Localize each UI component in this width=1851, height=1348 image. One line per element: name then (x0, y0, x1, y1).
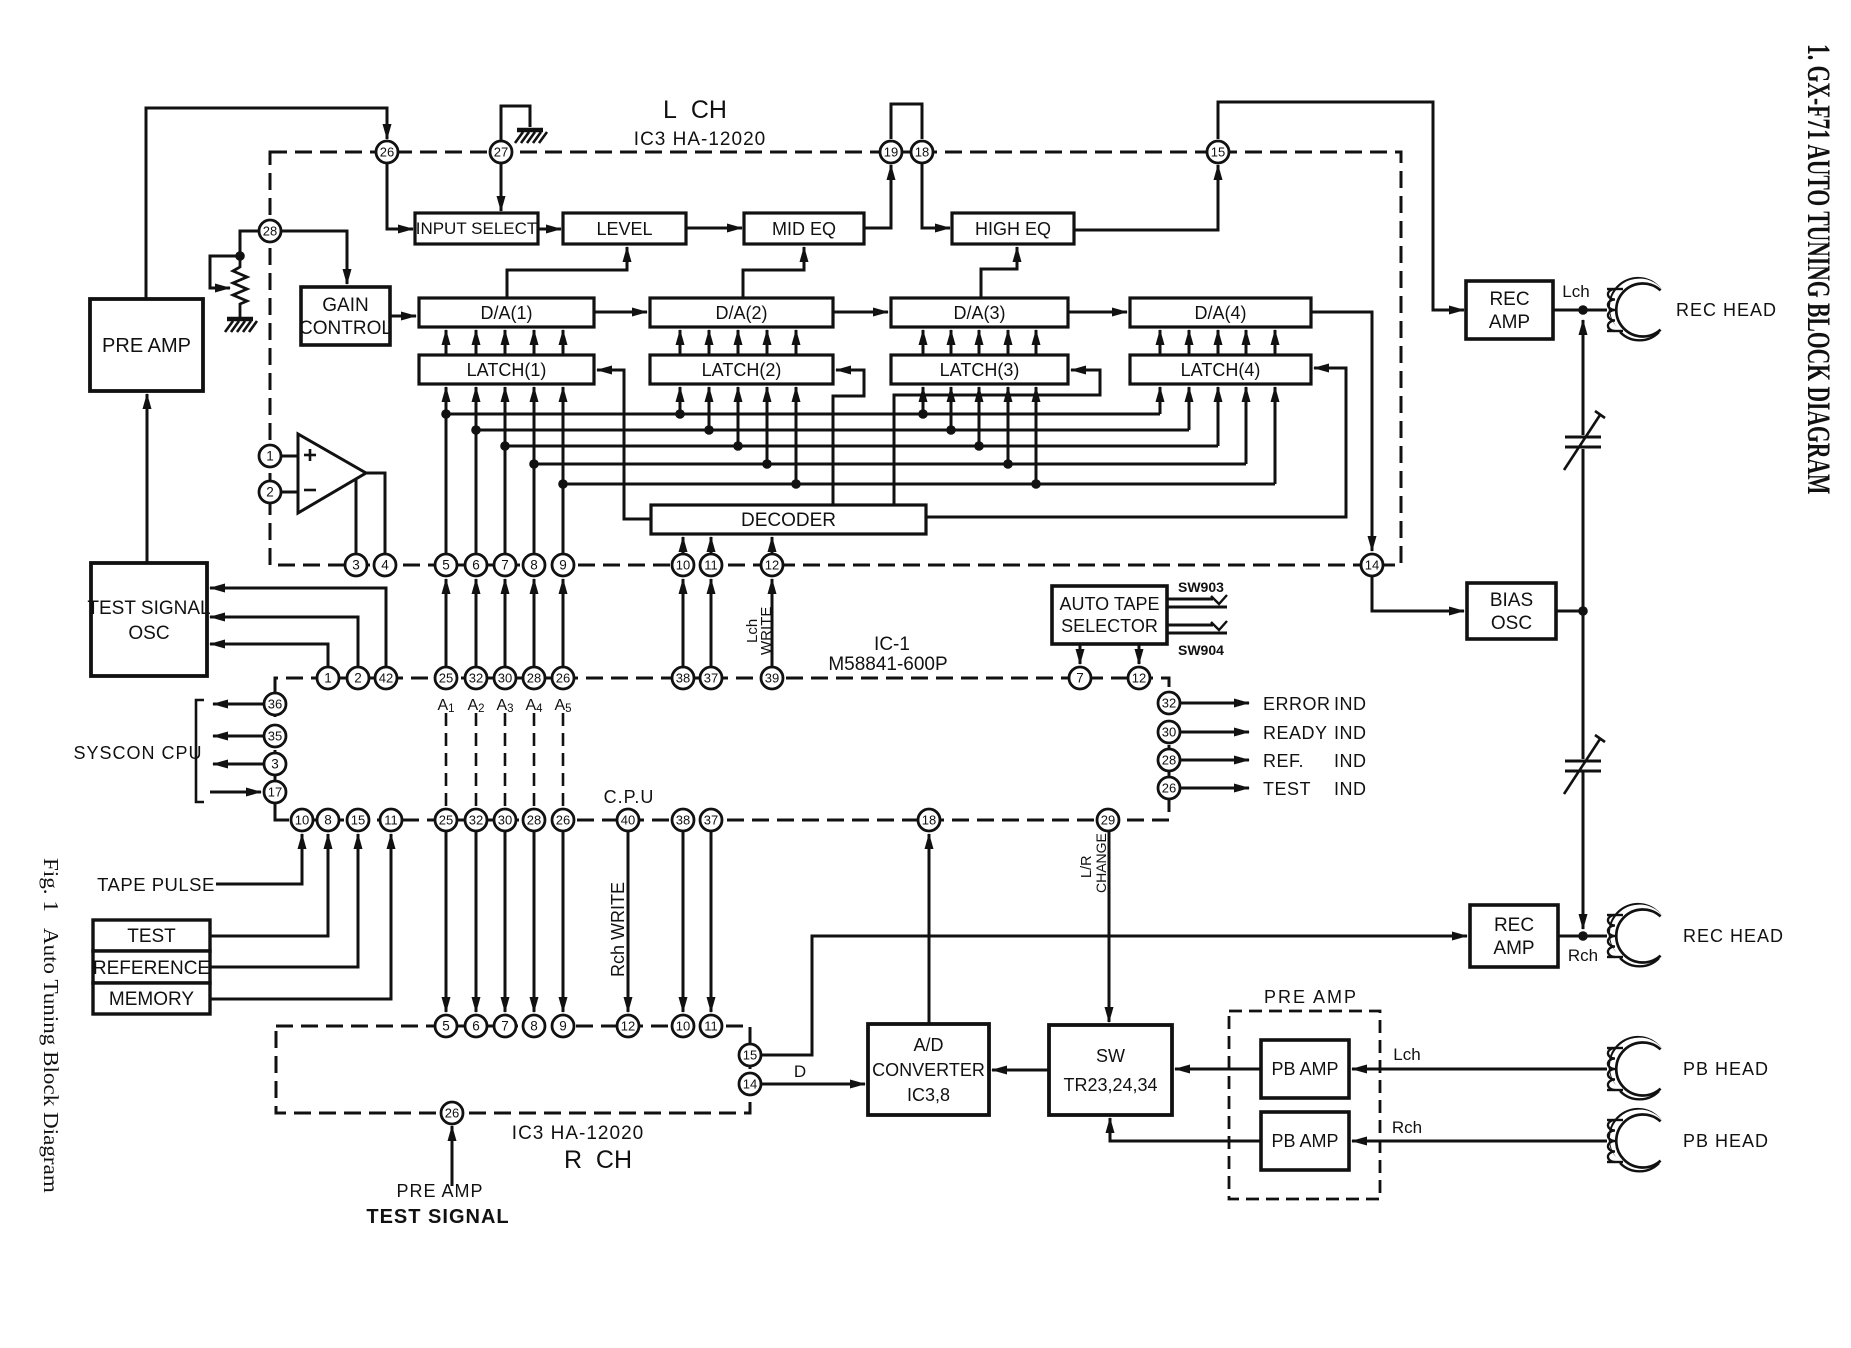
svg-text:8: 8 (324, 813, 332, 828)
wire CPU pin 29 to SW (L/R CHANGE) (1108, 831, 1111, 1022)
svg-text:R CH: R CH (564, 1146, 632, 1174)
pin 28 (CPU right) (1158, 749, 1180, 771)
pin 28 (CPU bottom) (523, 809, 545, 831)
svg-text:CONTROL: CONTROL (299, 318, 392, 339)
pin 3 (IC3 L bottom) (345, 554, 367, 576)
wire CPU pin 40 down to R CH pin 12 (Rch WRITE) (627, 831, 630, 1012)
pin 9 (IC3 R top) (552, 1015, 574, 1037)
svg-text:PB HEAD: PB HEAD (1683, 1059, 1769, 1079)
wire pin 28 to REF. IND (1180, 759, 1249, 762)
svg-text:28: 28 (263, 224, 277, 239)
wire LATCH(2) bit 5 to D/A(2) (795, 330, 798, 355)
pin 32 (CPU top) (465, 667, 487, 689)
wire CPU to IC3-L pin 5 riser (445, 579, 448, 667)
pin 18 (IC3 L top) (911, 141, 933, 163)
svg-text:TAPE PULSE: TAPE PULSE (97, 874, 215, 895)
PB HEAD Lch symbol (1607, 1036, 1662, 1099)
bus wire bit 5 horizontal (563, 483, 1275, 486)
svg-text:38: 38 (676, 813, 690, 828)
block INPUT SELECT (415, 213, 538, 244)
wire LEVEL to MID EQ (686, 227, 742, 230)
svg-text:2: 2 (266, 485, 274, 500)
svg-text:CHANGE: CHANGE (1093, 833, 1109, 893)
block DECODER (651, 505, 926, 534)
pin 40 (CPU bottom) (617, 809, 639, 831)
wire INPUT SELECT to LEVEL (538, 228, 561, 231)
chassis ground at pin 27 (515, 130, 547, 143)
wire pin 35 to SYSCON CPU (213, 735, 264, 738)
svg-text:TR23,24,34: TR23,24,34 (1063, 1075, 1157, 1095)
svg-text:29: 29 (1101, 813, 1115, 828)
svg-text:7: 7 (501, 1019, 509, 1034)
wire pin 28 to potentiometer node (240, 231, 259, 253)
pin 2 (IC3 L left) (259, 481, 281, 503)
junction dot bit 4 on column 4 (529, 459, 539, 469)
variable capacitor C-Lch (1564, 411, 1605, 470)
pin 4 (IC3 L bottom) (374, 554, 396, 576)
svg-text:30: 30 (498, 671, 512, 686)
wire LATCH(3) bit 3 to D/A(3) (978, 330, 981, 355)
wire MEMORY to pin 11 (210, 834, 391, 999)
wire bit 4 up to LATCH(3) (1007, 387, 1010, 464)
wire data bit 4 from pin 8 up to LATCH(1) (533, 387, 536, 554)
pin 32 (CPU bottom) (465, 809, 487, 831)
svg-text:MEMORY: MEMORY (109, 989, 194, 1010)
block TEST (93, 920, 210, 951)
wire pin 36 to SYSCON CPU (213, 703, 264, 706)
svg-text:26: 26 (1162, 781, 1176, 796)
REC HEAD Lch symbol (1607, 277, 1662, 340)
wire D/A(1) top to LEVEL (507, 247, 627, 298)
wire MID EQ to pin 19 (864, 165, 891, 228)
svg-text:3: 3 (271, 757, 279, 772)
pin 19 (IC3 L top) (880, 141, 902, 163)
svg-text:DECODER: DECODER (741, 510, 836, 531)
wire potentiometer wiper loop (210, 256, 240, 288)
pin 30 (CPU top) (494, 667, 516, 689)
svg-text:SW: SW (1096, 1046, 1125, 1066)
wire LATCH(4) bit 5 to D/A(4) (1274, 330, 1277, 355)
svg-text:6: 6 (472, 1019, 480, 1034)
wire CPU pin 25 down to R CH (445, 831, 448, 1012)
block HIGH EQ (952, 213, 1074, 244)
wire bit 3 up to LATCH(3) (978, 387, 981, 446)
pin 15 (IC3 L top) (1207, 141, 1229, 163)
block D/A(3) (891, 298, 1068, 327)
svg-text:35: 35 (268, 729, 282, 744)
svg-text:REF.: REF. (1263, 751, 1304, 771)
pin 25 (CPU bottom) (435, 809, 457, 831)
svg-text:38: 38 (676, 671, 690, 686)
pin 10 (IC3 L bottom) (672, 554, 694, 576)
svg-text:26: 26 (380, 145, 394, 160)
wire DECODER to LATCH(3) enable (894, 370, 1100, 505)
junction dot bias on Rch rec line (1578, 931, 1588, 941)
wire LATCH(4) bit 4 to D/A(4) (1245, 330, 1248, 355)
svg-text:14: 14 (1365, 558, 1379, 573)
pin 8 (IC3 L bottom) (523, 554, 545, 576)
svg-text:LATCH(1): LATCH(1) (467, 360, 547, 380)
svg-text:39: 39 (765, 671, 779, 686)
pin 26 (CPU top) (552, 667, 574, 689)
wire GAIN CONTROL to D/A(1) (390, 315, 416, 318)
svg-text:Rch WRITE: Rch WRITE (608, 882, 628, 977)
junction dot bit 5 at LATCH(2) column (791, 479, 801, 489)
svg-text:3: 3 (352, 558, 360, 573)
wire CPU to IC3-L pin 8 riser (533, 579, 536, 667)
svg-text:25: 25 (439, 813, 453, 828)
wire pin 12 to DECODER (771, 537, 774, 554)
svg-text:8: 8 (530, 1019, 538, 1034)
IC-1 CPU dashed boundary (275, 678, 1169, 820)
svg-text:Lch: Lch (1393, 1045, 1420, 1064)
wire CPU pin 30 down to R CH (504, 831, 507, 1012)
SW904 switch chevron (1211, 621, 1227, 630)
dashed address line A3 (504, 713, 507, 806)
svg-text:PB AMP: PB AMP (1271, 1059, 1338, 1079)
svg-text:AMP: AMP (1489, 312, 1530, 333)
svg-text:CONVERTER: CONVERTER (872, 1060, 985, 1080)
block A/D CONVERTER (868, 1024, 989, 1115)
junction dot bit 1 at LATCH(2) column (675, 409, 685, 419)
wire bit 2 up to LATCH(4) (1188, 387, 1191, 430)
wire D/A(2) top to MID EQ (743, 247, 804, 298)
svg-text:TEST: TEST (127, 926, 176, 947)
wire LATCH(4) bit 2 to D/A(4) (1188, 330, 1191, 355)
pin 39 (CPU top) (761, 667, 783, 689)
svg-text:19: 19 (884, 145, 898, 160)
svg-text:11: 11 (384, 813, 398, 828)
wire PRE AMP TEST SIGNAL to pin 26 (451, 1126, 454, 1186)
svg-text:10: 10 (676, 1019, 690, 1034)
pin 29 (CPU bottom) (1097, 809, 1119, 831)
pin 8 (CPU bottom) (317, 809, 339, 831)
block LATCH(2) (650, 355, 833, 384)
svg-text:1. GX-F71 AUTO TUNING BLOCK DI: 1. GX-F71 AUTO TUNING BLOCK DIAGRAM (1800, 44, 1837, 494)
wire pin 27 down to INPUT SELECT top (500, 163, 503, 211)
junction dot bit 3 on column 3 (500, 441, 510, 451)
wire D/A(1) to D/A(2) (594, 311, 647, 314)
wire data bit 3 from pin 7 up to LATCH(1) (504, 387, 507, 554)
svg-text:Fig. 1 Auto Tuning Block Dia: Fig. 1 Auto Tuning Block Diagram (39, 858, 63, 1193)
svg-text:D/A(2): D/A(2) (715, 303, 767, 323)
svg-text:32: 32 (1162, 696, 1176, 711)
pin 30 (CPU bottom) (494, 809, 516, 831)
wire CPU to IC3-L pin 10 riser (682, 579, 685, 667)
wire LATCH(2) bit 2 to D/A(2) (708, 330, 711, 355)
wire CPU to IC3-L pin 7 riser (504, 579, 507, 667)
svg-text:PRE AMP: PRE AMP (1264, 987, 1358, 1007)
svg-text:42: 42 (379, 671, 393, 686)
svg-text:IC3 HA-12020: IC3 HA-12020 (512, 1123, 644, 1144)
block AUTO TAPE SELECTOR (1052, 586, 1167, 644)
block BIAS OSC (1467, 583, 1556, 639)
junction dot bit 2 at LATCH(2) column (704, 425, 714, 435)
wire REC AMP Rch to REC HEAD (1558, 935, 1607, 938)
wire pin 11 to DECODER (710, 537, 713, 554)
junction dot bit 2 on column 2 (471, 425, 481, 435)
wire pin 10 to DECODER (682, 537, 685, 554)
bus wire bit 4 horizontal (534, 463, 1246, 466)
wire LATCH(1) bit 2 to D/A(1) (475, 330, 478, 355)
svg-text:LATCH(4): LATCH(4) (1181, 360, 1261, 380)
wire pin 26 to TEST IND (1180, 787, 1249, 790)
pin 26 (IC3 L top) (376, 141, 398, 163)
svg-text:32: 32 (469, 813, 483, 828)
pin 37 (CPU bottom) (700, 809, 722, 831)
svg-text:REC HEAD: REC HEAD (1683, 926, 1784, 946)
svg-text:A/D: A/D (913, 1035, 943, 1055)
junction dot bit 4 at LATCH(2) column (762, 459, 772, 469)
wire pin 15 to REC AMP Lch (1218, 102, 1464, 310)
block LEVEL (563, 213, 686, 244)
wire LATCH(1) bit 5 to D/A(1) (562, 330, 565, 355)
wire pin 17 to pin 10 (275, 803, 289, 820)
wire A/D CONVERTER to CPU pin 18 (928, 834, 931, 1024)
wire pin 1 to TEST SIGNAL OSC (210, 644, 328, 667)
wire PB AMP Lch to SW (1175, 1068, 1261, 1071)
pin 26 (CPU right) (1158, 777, 1180, 799)
pin 30 (CPU right) (1158, 721, 1180, 743)
svg-text:26: 26 (445, 1106, 459, 1121)
svg-text:TEST: TEST (1263, 779, 1311, 799)
svg-text:26: 26 (556, 813, 570, 828)
svg-text:WRITE: WRITE (758, 607, 775, 655)
bus wire bit 3 horizontal (505, 445, 1218, 448)
svg-text:9: 9 (559, 558, 567, 573)
svg-text:IC-1: IC-1 (874, 634, 910, 655)
wire bit 2 up to LATCH(3) (950, 387, 953, 430)
wire D/A(3) to D/A(4) (1068, 311, 1127, 314)
pin 7 (CPU top) (1069, 667, 1091, 689)
svg-text:TEST SIGNAL: TEST SIGNAL (366, 1206, 509, 1228)
pin 25 (CPU top) (435, 667, 457, 689)
block TEST SIGNAL OSC (87, 563, 210, 676)
block MEMORY (93, 983, 210, 1014)
svg-text:15: 15 (351, 813, 365, 828)
pin 11 (IC3 R top) (700, 1015, 722, 1037)
svg-text:REC: REC (1494, 915, 1534, 936)
wire CPU to IC3-L pin 12 riser (771, 579, 774, 667)
wire LATCH(3) bit 5 to D/A(3) (1035, 330, 1038, 355)
svg-text:REC HEAD: REC HEAD (1676, 300, 1777, 320)
wire CPU to IC3-L pin 9 riser (562, 579, 565, 667)
wire LATCH(3) bit 1 to D/A(3) (922, 330, 925, 355)
wire bit 2 up to LATCH(2) (708, 387, 711, 430)
block LATCH(3) (891, 355, 1068, 384)
svg-text:IND: IND (1334, 779, 1367, 799)
wire LATCH(2) bit 4 to D/A(2) (766, 330, 769, 355)
svg-text:2: 2 (354, 671, 362, 686)
svg-text:PB AMP: PB AMP (1271, 1131, 1338, 1151)
wire DECODER to LATCH(2) enable (833, 370, 864, 505)
wire data bit 5 from pin 9 up to LATCH(1) (562, 387, 565, 554)
block PB AMP Lch (1261, 1040, 1349, 1098)
wire SW903 switch upper (1167, 598, 1213, 601)
block PB AMP Rch (1261, 1112, 1349, 1170)
junction dot bit 3 at LATCH(2) column (733, 441, 743, 451)
block MID EQ (744, 213, 864, 244)
svg-text:OSC: OSC (128, 623, 169, 644)
junction dot bit 3 at LATCH(3) column (974, 441, 984, 451)
IC3 L-channel dashed boundary box (270, 152, 1401, 565)
pin 1 (CPU top) (317, 667, 339, 689)
pin 3 (CPU left) (264, 753, 286, 775)
pin 37 (CPU top) (700, 667, 722, 689)
wire data bit 2 from pin 6 up to LATCH(1) (475, 387, 478, 554)
wire CPU pin 38 down to R CH pin 10 (682, 831, 685, 1012)
block D/A(2) (650, 298, 833, 327)
pin 5 (IC3 R top) (435, 1015, 457, 1037)
dashed address line A2 (475, 713, 478, 806)
pin 14 (IC3 L bottom) (1361, 554, 1383, 576)
wire R CH pin 15 to REC AMP Rch (761, 936, 1467, 1055)
bias feed wire up to Lch rec line (1582, 449, 1585, 611)
svg-text:AMP: AMP (1493, 938, 1534, 959)
svg-text:7: 7 (501, 558, 509, 573)
wire CPU pin 28 down to R CH (533, 831, 536, 1012)
wire pin 14 to BIAS OSC (1372, 576, 1464, 611)
wire bit 4 up to LATCH(4) (1245, 387, 1248, 464)
wire CPU to IC3-L pin 11 riser (710, 579, 713, 667)
wire bridge pin 19 to pin 18 (891, 104, 922, 139)
svg-text:25: 25 (439, 671, 453, 686)
svg-text:18: 18 (915, 145, 929, 160)
potentiometer resistor element (233, 256, 247, 318)
svg-text:4: 4 (381, 558, 389, 573)
junction dot bit 1 at LATCH(3) column (918, 409, 928, 419)
REC HEAD Rch symbol (1607, 903, 1662, 966)
pin 26 (IC3 R bottom) (441, 1102, 463, 1124)
svg-text:IND: IND (1334, 723, 1367, 743)
wire CPU pin 37 down to R CH pin 11 (710, 831, 713, 1012)
dashed address line A5 (562, 713, 565, 806)
svg-text:1: 1 (324, 671, 332, 686)
wire bit 1 up to LATCH(3) (922, 387, 925, 414)
pin 28 (CPU top) (523, 667, 545, 689)
svg-text:SW904: SW904 (1178, 642, 1224, 658)
svg-text:28: 28 (1162, 753, 1176, 768)
pin 38 (CPU top) (672, 667, 694, 689)
bracket SYSCON CPU (196, 700, 204, 802)
svg-text:D/A(3): D/A(3) (953, 303, 1005, 323)
svg-text:30: 30 (1162, 725, 1176, 740)
pin 12 (CPU top) (1128, 667, 1150, 689)
wire D/A(2) to D/A(3) (833, 311, 888, 314)
svg-text:READY: READY (1263, 723, 1328, 743)
wire DECODER to LATCH(4) enable (926, 368, 1346, 517)
pin 38 (CPU bottom) (672, 809, 694, 831)
svg-text:LATCH(3): LATCH(3) (940, 360, 1020, 380)
svg-text:9: 9 (559, 1019, 567, 1034)
pin 15 (CPU bottom) (347, 809, 369, 831)
svg-text:TEST SIGNAL: TEST SIGNAL (87, 598, 210, 619)
pin 27 (IC3 L top) (490, 141, 512, 163)
wire bit 5 up to LATCH(2) (795, 387, 798, 484)
wire LATCH(4) bit 1 to D/A(4) (1159, 330, 1162, 355)
wire bit 5 up to LATCH(4) (1274, 387, 1277, 484)
svg-text:5: 5 (442, 1019, 450, 1034)
svg-text:27: 27 (494, 145, 508, 160)
svg-text:10: 10 (295, 813, 309, 828)
svg-text:5: 5 (442, 558, 450, 573)
svg-text:LEVEL: LEVEL (596, 219, 652, 239)
junction dot bit 1 on column 1 (441, 409, 451, 419)
pin 10 (IC3 R top) (672, 1015, 694, 1037)
wire CPU to IC3-L pin 6 riser (475, 579, 478, 667)
svg-text:PRE AMP: PRE AMP (102, 335, 191, 357)
svg-text:IND: IND (1334, 751, 1367, 771)
svg-text:11: 11 (704, 1019, 718, 1034)
block PRE AMP (input) (90, 299, 203, 391)
wire PB HEAD Lch to PB AMP (1352, 1068, 1607, 1071)
svg-text:37: 37 (704, 671, 718, 686)
pin 35 (CPU left) (264, 725, 286, 747)
pin 32 (CPU right) (1158, 692, 1180, 714)
pin 12 (IC3 L bottom) (761, 554, 783, 576)
wire pin 28 to GAIN CONTROL (281, 231, 347, 284)
svg-text:36: 36 (268, 697, 282, 712)
junction dot bit 2 at LATCH(3) column (946, 425, 956, 435)
svg-text:C.P.U: C.P.U (604, 787, 655, 807)
block SW TR23-24-34 (1049, 1025, 1172, 1115)
wire pin 32 to ERROR IND (1180, 702, 1249, 705)
svg-text:12: 12 (1132, 671, 1146, 686)
bias feed arrow to Lch junction (1582, 320, 1585, 435)
svg-text:M58841-600P: M58841-600P (828, 654, 947, 675)
wire pin 18 to HIGH EQ (922, 163, 950, 228)
wire pin 1 to op-amp + input (281, 455, 298, 458)
svg-text:OSC: OSC (1491, 613, 1532, 634)
wire pin 2 to TEST SIGNAL OSC (210, 617, 358, 667)
wire bit 3 up to LATCH(2) (737, 387, 740, 446)
pin 7 (IC3 R top) (494, 1015, 516, 1037)
wire TEST to pin 8 (210, 834, 328, 936)
svg-text:REFERENCE: REFERENCE (93, 958, 210, 979)
svg-text:ERROR: ERROR (1263, 694, 1331, 714)
svg-text:SW903: SW903 (1178, 579, 1224, 595)
svg-text:PRE AMP: PRE AMP (396, 1181, 483, 1201)
svg-text:GAIN: GAIN (322, 295, 368, 316)
pin 6 (IC3 L bottom) (465, 554, 487, 576)
wire pin 2 to op-amp - input (281, 491, 298, 494)
wire LATCH(3) bit 4 to D/A(3) (1007, 330, 1010, 355)
wire D/A(4) output to pin 14 (1311, 312, 1372, 551)
wire CPU pin 26 down to R CH (562, 831, 565, 1012)
svg-text:40: 40 (621, 813, 635, 828)
svg-text:Lch: Lch (1562, 282, 1589, 301)
pin 17 (CPU left) (264, 781, 286, 803)
pin 6 (IC3 R top) (465, 1015, 487, 1037)
block D/A(1) (419, 298, 594, 327)
svg-text:28: 28 (527, 671, 541, 686)
junction dot at potentiometer top (235, 251, 245, 261)
block GAIN CONTROL (299, 287, 392, 345)
wire op-amp output to pin 4 (366, 473, 385, 554)
wire PRE AMP output to pin 26 (146, 108, 387, 299)
wire PB HEAD Rch to PB AMP (1352, 1140, 1607, 1143)
junction dot bit 5 at LATCH(3) column (1031, 479, 1041, 489)
svg-text:MID EQ: MID EQ (772, 219, 836, 239)
svg-text:INPUT SELECT: INPUT SELECT (416, 219, 538, 238)
wire SW904 switch lower (1167, 632, 1227, 635)
svg-text:11: 11 (704, 558, 718, 573)
wire pin 30 to READY IND (1180, 731, 1249, 734)
wire BIAS OSC output (1556, 610, 1583, 613)
wire AUTO TAPE SELECTOR to pin 12 (1138, 644, 1141, 664)
svg-text:12: 12 (765, 558, 779, 573)
wire LATCH(2) bit 1 to D/A(2) (679, 330, 682, 355)
